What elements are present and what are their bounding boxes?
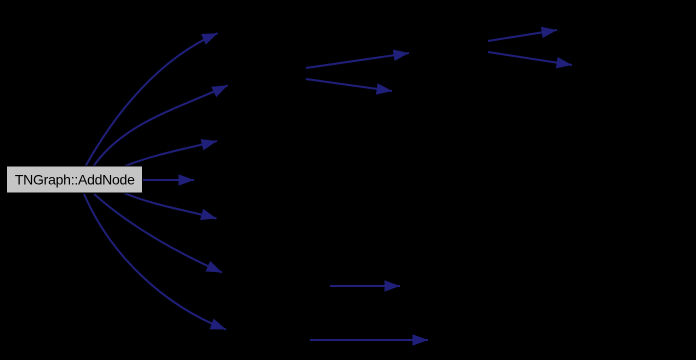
edge arrow 3 [124, 141, 217, 167]
edge arrow 13 (bottom horizontal) [310, 339, 428, 341]
svg-text:TNGraph::AddNode: TNGraph::AddNode [15, 172, 135, 188]
edge arrow 9 (second level, lower) [306, 79, 392, 91]
edge arrow 6 [94, 194, 222, 273]
edge arrow 2 [93, 85, 228, 167]
edge arrow 1 (AddNode to hidden node, top) [85, 33, 218, 167]
edge arrow 12 (lower horizontal) [330, 285, 400, 287]
edge arrow 10 (third level, upper) [488, 30, 557, 41]
edge arrow 8 (second level, upper) [306, 53, 409, 68]
edge arrow 5 [124, 193, 217, 219]
edge arrow 11 (third level, lower) [488, 52, 572, 65]
node TNGraph::AddNode [7, 166, 143, 193]
edge arrow 7 (AddNode to hidden node, bottom) [84, 194, 226, 330]
edge arrow 4 (straight middle) [143, 179, 194, 181]
